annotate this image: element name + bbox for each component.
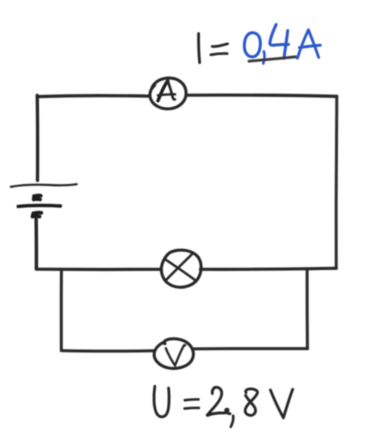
wire left vertical upper: [36, 95, 40, 180]
label 0 (blue value): [244, 33, 260, 57]
lamp L1: [161, 250, 201, 287]
label comma (bottom value): [231, 416, 233, 427]
wire bottom-right segment: [200, 268, 336, 269]
label = (bottom equation): [185, 399, 199, 408]
label comma (blue value): [263, 52, 264, 64]
wire left vertical lower: [34, 219, 38, 269]
voltmeter V1: [154, 339, 193, 369]
wire right vertical: [335, 96, 339, 268]
label 2 (bottom value): [208, 387, 230, 415]
wire bottom-left segment: [36, 268, 160, 271]
label V (bottom unit): [270, 389, 292, 418]
battery B1: [11, 184, 77, 216]
label = (top equation): [211, 44, 228, 55]
label 8 (bottom value): [245, 389, 257, 415]
ammeter A1: [150, 78, 186, 109]
wire voltmeter branch left horizontal: [61, 349, 154, 353]
wire top-left segment: [38, 94, 149, 98]
wire voltmeter branch right vertical: [306, 270, 309, 349]
pen blob at foot of 2: [208, 414, 211, 415]
label I (top equation): [199, 34, 200, 63]
wire voltmeter branch right horizontal: [193, 347, 307, 350]
wire voltmeter branch left vertical: [60, 270, 63, 349]
label U (bottom equation): [154, 386, 169, 416]
label A (blue unit): [297, 30, 320, 58]
underline under 0,4: [249, 57, 296, 61]
wire top-right segment: [186, 95, 336, 96]
label 4 (blue value): [270, 25, 289, 59]
